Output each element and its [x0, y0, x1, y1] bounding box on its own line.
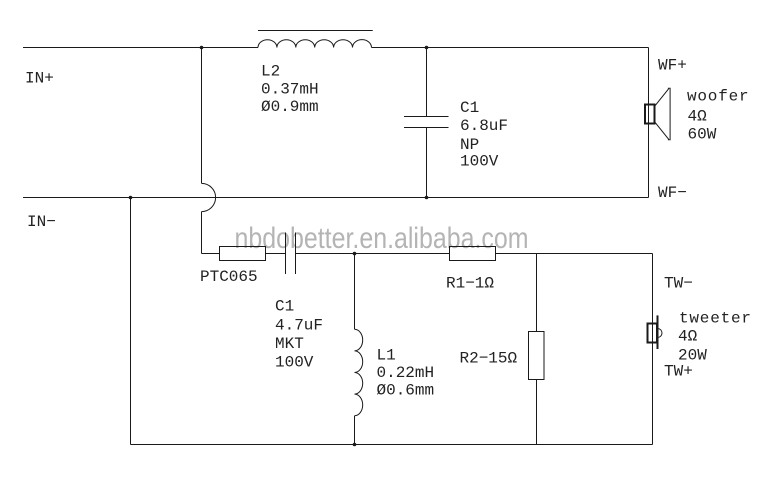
svg-text:WF+: WF+ [658, 56, 687, 74]
junction dot at IN- rail left branch [129, 196, 133, 200]
wire vertical from top rail with hop over IN- rail [202, 48, 216, 254]
capacitor C1 (6.8uF) [404, 117, 449, 128]
wire R2 bottom lead [536, 380, 538, 445]
svg-text:woofer: woofer [687, 88, 749, 106]
wire IN- rail [23, 197, 649, 199]
svg-text:4Ω: 4Ω [678, 328, 698, 346]
wire woofer branch vertical [648, 48, 650, 198]
svg-text:C1: C1 [275, 298, 294, 316]
resistor R2 [529, 332, 545, 380]
svg-text:nbdobetter.en.alibaba.com: nbdobetter.en.alibaba.com [235, 222, 529, 255]
wire R1 to tweeter branch [496, 253, 653, 255]
svg-text:L1: L1 [377, 346, 396, 364]
wire IN+ top rail left segment [23, 47, 258, 49]
wire tweeter branch vertical [652, 254, 654, 445]
svg-text:WF−: WF− [658, 184, 687, 202]
svg-text:100V: 100V [460, 153, 499, 171]
wire R2 branch top lead [536, 254, 538, 333]
svg-text:Ø0.6mm: Ø0.6mm [377, 382, 435, 400]
svg-text:100V: 100V [275, 354, 314, 372]
resistor PTC065 [220, 247, 266, 261]
svg-text:60W: 60W [688, 126, 717, 144]
junction dot at IN- rail C1 [425, 196, 429, 200]
svg-text:0.22mH: 0.22mH [377, 364, 435, 382]
svg-text:0.37mH: 0.37mH [261, 81, 319, 99]
woofer symbol [645, 88, 670, 140]
svg-text:TW+: TW+ [664, 363, 693, 381]
junction dot at bottom rail L1 [353, 443, 357, 447]
junction dot at mid rail L1 [353, 252, 357, 256]
wire PTC065 to capacitor [266, 253, 286, 255]
wire bottom rail [131, 444, 653, 446]
wire top rail right segment [372, 47, 649, 49]
wire capacitor to R1 [296, 253, 450, 255]
svg-text:Ø0.9mm: Ø0.9mm [261, 98, 319, 116]
wire L1 bottom lead [354, 416, 356, 445]
wire C1 top lead [426, 48, 428, 117]
svg-text:MKT: MKT [275, 335, 304, 353]
wire C1 bottom lead [426, 128, 428, 198]
svg-text:L2: L2 [261, 63, 280, 81]
wire left return vertical [130, 198, 132, 445]
inductor L1 [355, 329, 363, 415]
junction dot at top rail x201 [200, 46, 204, 50]
inductor L2 [258, 31, 373, 48]
svg-text:R2−15Ω: R2−15Ω [460, 349, 518, 367]
svg-text:TW−: TW− [664, 275, 693, 293]
svg-text:IN−: IN− [27, 213, 56, 231]
tweeter symbol [648, 315, 663, 349]
svg-text:4Ω: 4Ω [688, 108, 708, 126]
svg-text:NP: NP [460, 136, 479, 154]
svg-text:C1: C1 [460, 99, 479, 117]
junction dot at top rail C1 [425, 46, 429, 50]
capacitor C1 (4.7uF) [286, 233, 296, 275]
svg-text:tweeter: tweeter [679, 310, 752, 328]
resistor R1 [450, 247, 496, 261]
svg-text:R1−1Ω: R1−1Ω [446, 275, 494, 293]
wire L1 branch top lead [354, 254, 356, 330]
wire to PTC065 [202, 253, 220, 255]
svg-text:IN+: IN+ [25, 70, 54, 88]
svg-text:6.8uF: 6.8uF [460, 117, 508, 135]
svg-text:PTC065: PTC065 [200, 268, 258, 286]
svg-text:4.7uF: 4.7uF [275, 317, 323, 335]
